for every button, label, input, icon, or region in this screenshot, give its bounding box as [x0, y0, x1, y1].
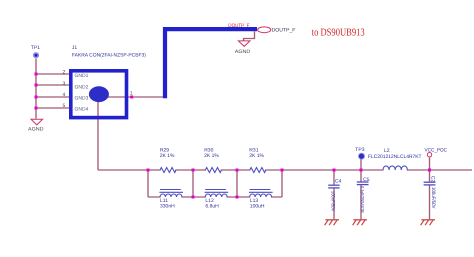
- svg-text:R31: R31: [249, 147, 258, 153]
- svg-text:330nH: 330nH: [160, 203, 175, 209]
- svg-text:R30: R30: [204, 147, 213, 153]
- svg-text:6.8uH: 6.8uH: [205, 203, 218, 209]
- svg-text:GND3: GND3: [75, 96, 89, 102]
- svg-text:100uH: 100uH: [250, 203, 265, 209]
- svg-text:2K 1%: 2K 1%: [249, 153, 264, 159]
- svg-text:GND1: GND1: [75, 73, 89, 79]
- svg-text:C5: C5: [363, 177, 370, 183]
- svg-text:1: 1: [130, 91, 133, 97]
- svg-text:C2: C2: [430, 176, 436, 183]
- svg-text:2: 2: [63, 70, 66, 76]
- svg-text:GND2: GND2: [75, 84, 89, 90]
- svg-text:2K 1%: 2K 1%: [160, 153, 175, 159]
- svg-text:FAKRA CON(2FAI-NZSP-PCBF3): FAKRA CON(2FAI-NZSP-PCBF3): [72, 53, 146, 59]
- svg-text:FLC201212NLCL4R7KT: FLC201212NLCL4R7KT: [368, 154, 422, 160]
- svg-text:DOUTP_F: DOUTP_F: [272, 27, 296, 33]
- svg-text:100nF/50V: 100nF/50V: [330, 191, 336, 212]
- svg-text:C4: C4: [335, 179, 342, 185]
- svg-text:VCC_POC: VCC_POC: [425, 148, 448, 154]
- svg-text:R29: R29: [160, 147, 169, 153]
- svg-text:DOUTP_F: DOUTP_F: [228, 23, 249, 29]
- svg-text:J1: J1: [72, 45, 78, 51]
- svg-text:AGND: AGND: [28, 127, 44, 133]
- svg-text:GND4: GND4: [75, 107, 89, 113]
- svg-text:L12: L12: [205, 198, 214, 204]
- svg-text:4: 4: [63, 92, 66, 98]
- svg-text:TP1: TP1: [31, 45, 40, 51]
- svg-text:L11: L11: [160, 198, 168, 204]
- svg-text:2K 1%: 2K 1%: [204, 153, 219, 159]
- svg-text:AGND: AGND: [235, 49, 251, 55]
- svg-text:100uF/50V: 100uF/50V: [430, 187, 436, 209]
- svg-text:L2: L2: [384, 148, 390, 154]
- svg-text:3: 3: [63, 81, 66, 87]
- svg-text:L13: L13: [250, 198, 259, 204]
- svg-text:5: 5: [63, 103, 66, 109]
- svg-text:0.1uF/250V/X7R: 0.1uF/250V/X7R: [359, 186, 365, 212]
- svg-text:TP3: TP3: [355, 147, 364, 153]
- svg-text:to DS90UB913: to DS90UB913: [312, 28, 365, 39]
